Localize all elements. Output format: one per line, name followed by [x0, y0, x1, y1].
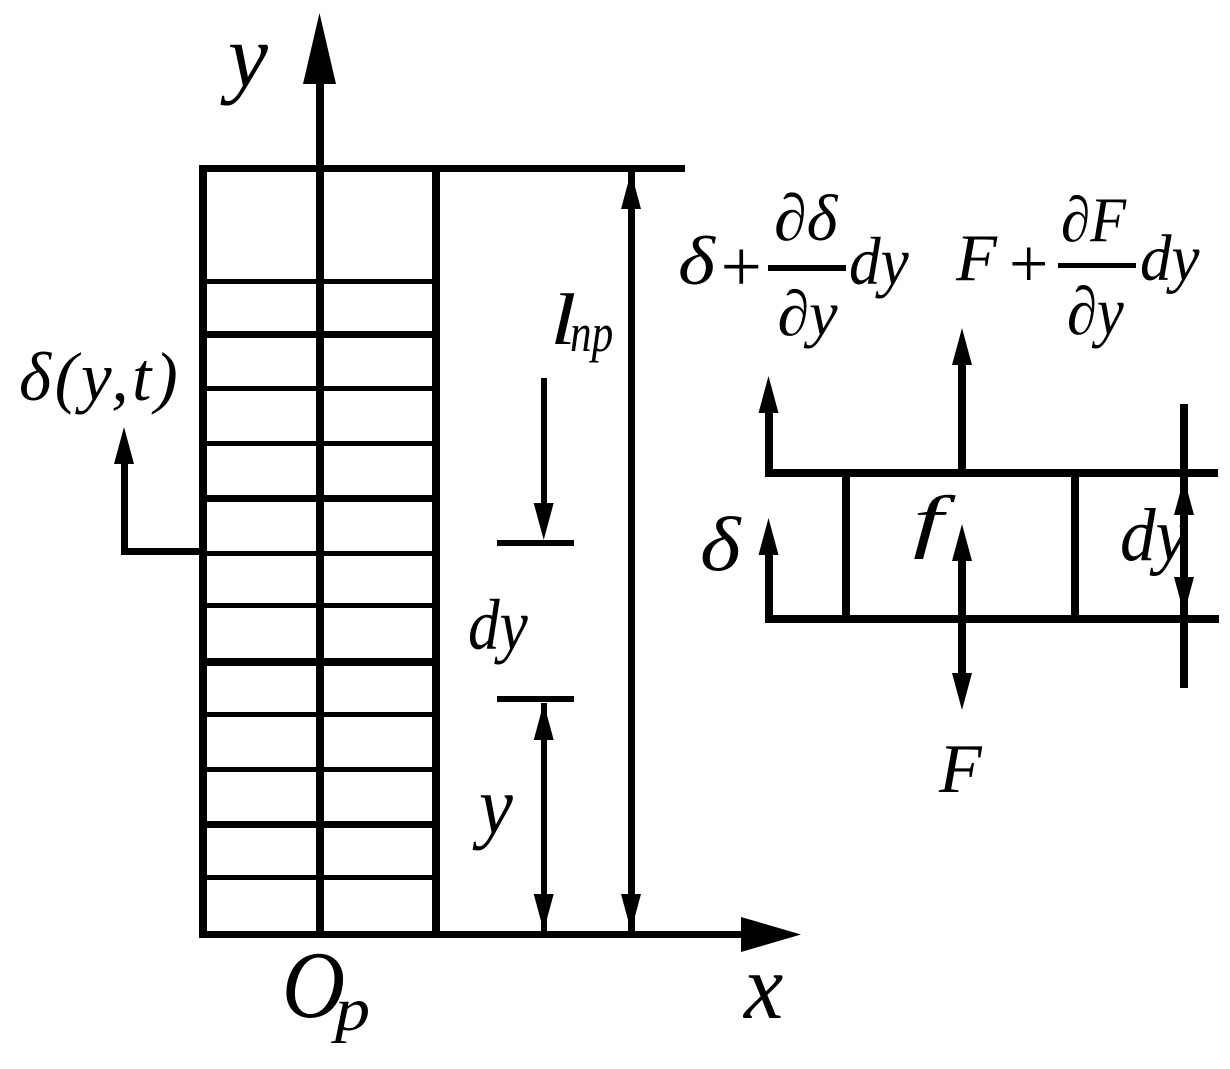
- delta upper arrowhead: [759, 376, 779, 413]
- F label: [939, 735, 982, 805]
- formula 1: dy: [849, 227, 909, 295]
- y-axis label: [228, 12, 268, 102]
- formula 1: plus: [716, 230, 765, 303]
- ladder left edge: [199, 165, 207, 938]
- f arrowhead: [952, 524, 972, 561]
- origin label p subscript: [335, 980, 370, 1041]
- formula 1: denominator: [778, 282, 838, 346]
- dy lower arrowhead up: [534, 703, 554, 740]
- delta(y,t) connector: [121, 548, 204, 555]
- F down arrowhead: [952, 673, 972, 710]
- element top line: [765, 469, 1218, 477]
- formula 1: numerator: [774, 186, 837, 252]
- formula 2: dy: [1140, 226, 1199, 292]
- rung 7: [199, 603, 440, 608]
- F upper arrow stem: [958, 362, 966, 472]
- dy tick lower: [497, 696, 574, 702]
- ladder middle vertical / y-axis stem: [316, 62, 324, 938]
- rung 4: [199, 441, 440, 446]
- delta lower arrowhead: [759, 518, 779, 555]
- dy tick upper: [497, 540, 574, 546]
- element right side: [1071, 469, 1079, 622]
- delta(y,t) arrowhead: [114, 427, 134, 464]
- delta(y,t) arrow stem: [121, 455, 128, 551]
- lnp label l: [550, 283, 576, 356]
- rung 2: [199, 331, 440, 338]
- rung 9: [199, 712, 440, 717]
- ladder top line: [199, 165, 685, 172]
- formula 2: F: [956, 225, 997, 292]
- rung 1: [199, 279, 440, 284]
- rung 8: [199, 658, 440, 666]
- x-axis bottom line: [199, 931, 744, 938]
- delta label: [700, 506, 740, 583]
- x-axis arrowhead: [741, 917, 801, 952]
- x-axis label: [744, 941, 783, 1034]
- delta(y,t) label: [19, 343, 181, 412]
- dy dimension upper stem: [541, 378, 548, 513]
- lnp label np subscript: [570, 306, 613, 360]
- rung 10: [199, 767, 440, 772]
- formula 1: delta: [678, 227, 715, 296]
- ladder right edge: [432, 165, 440, 938]
- rung 6: [199, 551, 440, 556]
- formula 2: fraction bar: [1058, 263, 1136, 268]
- formula 2: denominator: [1067, 277, 1124, 345]
- y dimension label: [479, 765, 513, 847]
- y dim bottom arrowhead down: [534, 894, 554, 931]
- rung 11: [199, 821, 440, 828]
- dy upper arrowhead down: [534, 503, 554, 540]
- dy label left: [468, 589, 528, 661]
- lnp dimension stem: [628, 172, 635, 932]
- dy right up arrowhead: [1174, 478, 1194, 515]
- formula 2: numerator: [1061, 188, 1126, 252]
- y-axis arrowhead: [303, 13, 336, 84]
- formula 1: fraction bar: [768, 265, 846, 271]
- rung 5: [199, 495, 440, 502]
- dy right down arrowhead: [1174, 577, 1194, 614]
- element bottom line: [765, 615, 1219, 623]
- f label: [913, 487, 943, 557]
- f arrow stem: [958, 556, 966, 680]
- dy lower stem: [541, 703, 548, 933]
- delta upper arrow stem: [765, 408, 773, 473]
- origin label O: [282, 938, 345, 1033]
- rung 12: [199, 875, 440, 880]
- lnp bottom arrowhead down: [621, 894, 641, 931]
- F+dF arrowhead: [952, 328, 972, 365]
- dy label right: [1120, 498, 1187, 573]
- dy dimension right stem: [1180, 404, 1188, 688]
- rung 3: [199, 386, 440, 391]
- element left side: [842, 469, 850, 622]
- delta lower arrow stem: [765, 548, 773, 618]
- formula 2: plus: [1005, 230, 1052, 300]
- lnp top arrowhead up: [621, 172, 641, 209]
